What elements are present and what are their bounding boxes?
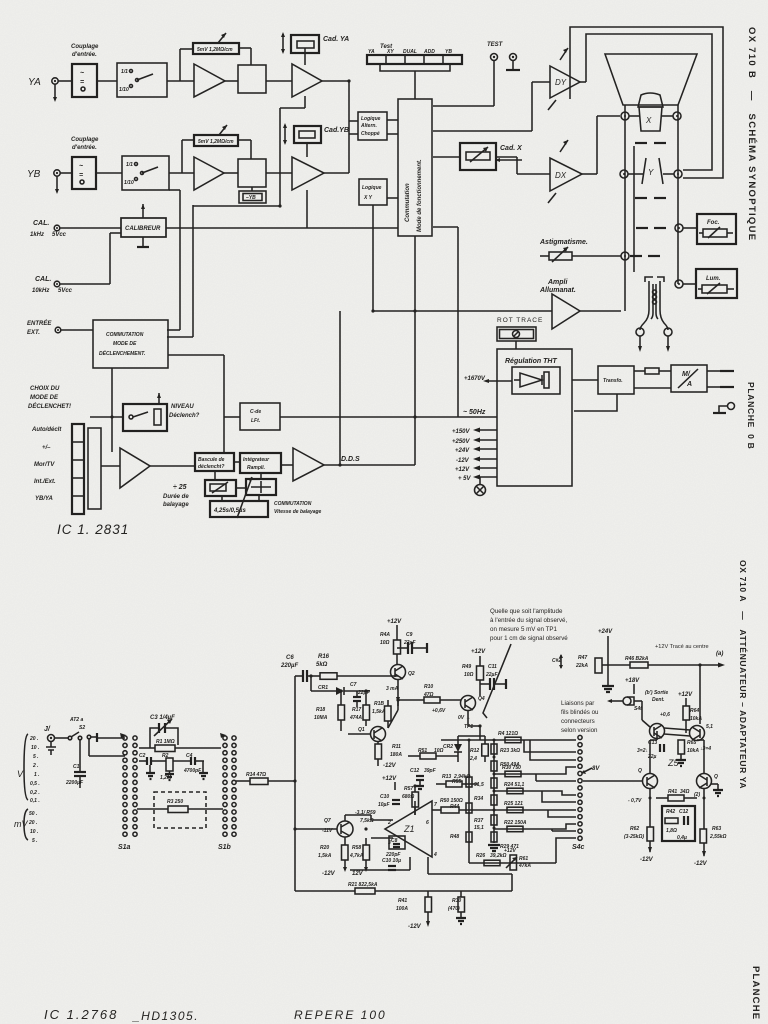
resistor R14: [236, 780, 250, 782]
svg-text:10µF: 10µF: [378, 802, 390, 808]
wire right trunk: [433, 226, 458, 228]
svg-text:ENTRÉE: ENTRÉE: [27, 319, 52, 327]
grid electrode dashes row1: [635, 142, 647, 144]
grid electrode dashes row2: [635, 197, 647, 199]
svg-text:+24V: +24V: [455, 448, 470, 454]
svg-text:Astigmatisme.: Astigmatisme.: [539, 239, 588, 246]
output amp YA: [292, 64, 322, 97]
svg-text:39pF: 39pF: [424, 768, 437, 774]
svg-text:Choppé: Choppé: [361, 131, 380, 137]
svg-text:R42: R42: [666, 809, 675, 815]
svg-text:2,4: 2,4: [469, 756, 477, 762]
svg-text:47kA: 47kA: [518, 863, 531, 869]
dashed compensation box: [154, 792, 206, 828]
svg-text:C10: C10: [380, 794, 389, 800]
svg-text:R20: R20: [320, 845, 329, 851]
svg-text:Intégrateur: Intégrateur: [243, 457, 270, 463]
wire DX output to X plates: [582, 173, 597, 175]
svg-text:474A: 474A: [349, 715, 362, 721]
box C-de LFt: [240, 403, 280, 430]
wire niveau line: [90, 416, 123, 418]
svg-text:=: =: [79, 172, 83, 179]
svg-text:100A: 100A: [396, 906, 408, 912]
X plate hat: [638, 93, 663, 107]
svg-text:YB: YB: [27, 169, 41, 180]
svg-text:R11: R11: [392, 744, 401, 750]
TEST terminal 2 with ground: [510, 54, 517, 61]
svg-text:déclencht?: déclencht?: [198, 464, 224, 470]
svg-text:+12V: +12V: [382, 776, 397, 782]
ground symbols: [146, 773, 155, 779]
svg-text:C2: C2: [139, 753, 146, 759]
svg-text:Cad. YA: Cad. YA: [323, 36, 349, 43]
svg-text:MODE DE: MODE DE: [30, 395, 59, 401]
svg-text:R4 121Ω: R4 121Ω: [498, 731, 518, 737]
op-amp Z1: [385, 801, 432, 857]
svg-text:10 .: 10 .: [30, 829, 38, 835]
svg-text:+1670V: +1670V: [464, 376, 486, 382]
svg-text:R25 121: R25 121: [504, 801, 523, 807]
ground chassis: [728, 403, 735, 410]
wire: [169, 172, 194, 174]
svg-text:2,55kΩ: 2,55kΩ: [709, 834, 727, 840]
svg-text:Cad. X: Cad. X: [500, 145, 523, 152]
svg-text:20 .: 20 .: [28, 820, 37, 826]
potentiometer R61: [510, 855, 517, 870]
trimmer Cad.X: [433, 156, 460, 158]
svg-text:3 mA: 3 mA: [386, 686, 399, 692]
svg-text:R23 3kΩ: R23 3kΩ: [500, 748, 520, 754]
bascule de declenchement box: [195, 453, 234, 471]
svg-text:on mesure 5 mV en TP1: on mesure 5 mV en TP1: [490, 626, 558, 633]
svg-text:(a): (a): [716, 651, 723, 657]
emitter ground Q6: [711, 783, 718, 785]
fuse: [634, 370, 645, 372]
svg-text:5Vcc: 5Vcc: [58, 288, 73, 294]
svg-text:22µF: 22µF: [485, 672, 498, 678]
svg-text:R57: R57: [404, 786, 413, 792]
box transfo: [598, 366, 634, 394]
svg-text:4: 4: [433, 852, 437, 858]
svg-text:OX 710 A — ATTÉNUATEUR – A: OX 710 A — ATTÉNUATEUR – ADAPTATEUR YA: [738, 560, 748, 789]
svg-text:(2): (2): [694, 792, 700, 798]
svg-text:Int./Ext.: Int./Ext.: [34, 479, 56, 485]
svg-text:0,2 .: 0,2 .: [30, 790, 40, 796]
svg-text:Ampli: Ampli: [547, 279, 569, 286]
svg-text:mV: mV: [14, 819, 28, 829]
box Foc.: [697, 214, 736, 244]
svg-text:R13: R13: [442, 774, 451, 780]
switch wafer S1b: [223, 736, 236, 836]
svg-text:+12V: +12V: [455, 467, 470, 473]
wire top tap row: [441, 739, 556, 741]
wire: [96, 172, 122, 174]
svg-text:5,1: 5,1: [706, 724, 713, 730]
callout line to TP1: [483, 644, 511, 718]
bottom row R26: [469, 862, 556, 864]
svg-text:20 .: 20 .: [29, 736, 38, 742]
wire S2 to S1a: [88, 739, 90, 756]
wire inner electrode column: [633, 146, 635, 272]
wire logic xy to ampli allumage: [373, 310, 552, 312]
CRT funnel: [605, 54, 697, 105]
svg-text:R10: R10: [424, 684, 433, 690]
svg-text:selon version: selon version: [561, 727, 598, 734]
svg-text:DUAL: DUAL: [403, 49, 417, 55]
gain block YA: [238, 65, 266, 93]
svg-text:(b') Sortie: (b') Sortie: [645, 690, 668, 696]
wire S4c to output pair: [583, 780, 643, 782]
svg-text:R21 822,5kA: R21 822,5kA: [348, 882, 378, 888]
svg-text:R55: R55: [452, 779, 461, 785]
svg-text:R22 150A: R22 150A: [504, 820, 527, 826]
svg-text:1/1: 1/1: [121, 69, 128, 75]
svg-text:connecteurs: connecteurs: [561, 718, 595, 725]
svg-text:CAL.: CAL.: [33, 220, 49, 227]
capacitor C1: [79, 740, 81, 771]
svg-text:+12V: +12V: [504, 848, 516, 854]
svg-text:R18: R18: [316, 707, 325, 713]
svg-text:91,5: 91,5: [474, 782, 484, 788]
svg-text:22kA: 22kA: [575, 663, 588, 669]
svg-text:C12: C12: [410, 768, 419, 774]
mains terminals: [707, 370, 720, 372]
svg-text:- 0,7V: - 0,7V: [628, 798, 642, 804]
svg-text:~: ~: [79, 163, 83, 170]
svg-text:YA: YA: [28, 77, 41, 88]
THT inner oscillator box: [512, 367, 560, 394]
feedback resistor 5mV YB: [181, 140, 183, 173]
svg-text:Q2: Q2: [408, 671, 415, 677]
svg-text:C10 10µ: C10 10µ: [382, 858, 401, 864]
svg-text:~ 50Hz: ~ 50Hz: [463, 409, 486, 416]
attenuator switch YA: [117, 63, 167, 97]
svg-text:Y: Y: [648, 168, 654, 177]
svg-text:+0,6: +0,6: [660, 712, 670, 718]
commutation mode box: [398, 99, 432, 236]
svg-text:R65: R65: [687, 740, 696, 746]
svg-text:10Ω: 10Ω: [464, 672, 474, 678]
resistor R2: [166, 758, 173, 771]
node focus: [675, 224, 683, 232]
tap row 4 output: [459, 809, 556, 811]
svg-text:Mor/TV: Mor/TV: [34, 462, 55, 468]
resistor R26: [484, 860, 500, 866]
svg-text:Foc.: Foc.: [707, 220, 720, 226]
svg-text:22pF: 22pF: [357, 690, 371, 696]
svg-text:2200µF: 2200µF: [65, 780, 84, 786]
coupling selector YB: [60, 172, 72, 174]
svg-text:=: =: [80, 79, 84, 86]
svg-text:34Ω: 34Ω: [680, 789, 690, 795]
svg-text:7: 7: [434, 802, 437, 808]
svg-text:5 .: 5 .: [32, 838, 38, 844]
svg-text:+12V Tracé au centre: +12V Tracé au centre: [655, 644, 709, 650]
svg-text:R37: R37: [474, 818, 483, 824]
svg-text:-12V: -12V: [456, 458, 470, 464]
speed selector box: [210, 501, 268, 517]
svg-text:X Y: X Y: [363, 195, 373, 201]
switch wafer S1a: [123, 736, 137, 836]
svg-text:1 .: 1 .: [34, 772, 40, 778]
svg-text:–YB: –YB: [246, 195, 256, 201]
grid electrode dashes row4: [630, 255, 642, 257]
svg-text:YB/YA: YB/YA: [35, 496, 53, 502]
svg-text:Mode de fonctionnement.: Mode de fonctionnement.: [417, 159, 423, 232]
svg-text:Cad.YB: Cad.YB: [324, 127, 349, 134]
cathode terminal right: [664, 328, 672, 336]
svg-text:50 .: 50 .: [29, 811, 37, 817]
svg-text:Allumanat.: Allumanat.: [539, 287, 576, 294]
ladder chain vertical: [493, 740, 495, 843]
svg-text:+0,6V: +0,6V: [432, 708, 446, 714]
svg-text:R16: R16: [318, 654, 330, 660]
svg-text:Transfo.: Transfo.: [603, 378, 623, 384]
svg-text:IC 1.2768: IC 1.2768: [44, 1007, 118, 1022]
commutation declenchement box: [93, 320, 168, 368]
preamp YB: [194, 157, 224, 190]
wire declench box down: [111, 368, 113, 417]
svg-text:ADD: ADD: [423, 49, 435, 55]
svg-text:10Ω: 10Ω: [380, 640, 390, 646]
svg-text:C1: C1: [73, 764, 80, 770]
grid electrode dashes row3: [636, 227, 648, 229]
wire selector to trigger amp: [101, 465, 120, 467]
svg-text:C6: C6: [286, 655, 294, 661]
svg-text:2 .: 2 .: [32, 763, 39, 769]
svg-text:10MA: 10MA: [314, 715, 328, 721]
svg-text:EXT.: EXT.: [27, 330, 40, 336]
svg-text:+250V: +250V: [452, 439, 471, 445]
wire TP1 column: [468, 740, 470, 863]
svg-text:d'entrée.: d'entrée.: [72, 145, 97, 151]
node lum: [675, 280, 683, 288]
tap row 2: [494, 773, 556, 775]
svg-text:÷ 25: ÷ 25: [173, 484, 187, 491]
logic block Altern/Choppe: [358, 112, 387, 140]
resistor R23: [491, 744, 497, 754]
wire: [224, 172, 238, 174]
transistor Q5: [643, 774, 658, 789]
svg-text:Dent.: Dent.: [652, 697, 665, 703]
svg-text:R1B: R1B: [374, 701, 384, 707]
svg-text:Lum.: Lum.: [706, 276, 721, 282]
svg-text:+12V: +12V: [471, 649, 486, 655]
svg-text:YB: YB: [445, 49, 452, 55]
wire ampli output to neck: [624, 310, 626, 312]
svg-text:+/–: +/–: [42, 445, 51, 451]
svg-text:↓3=4: ↓3=4: [700, 746, 711, 752]
svg-text:D.D.S: D.D.S: [341, 456, 360, 463]
op-amp DY: [550, 66, 580, 98]
svg-text:DY: DY: [555, 78, 567, 87]
wire Cad.X to DX: [496, 156, 517, 158]
node Y left: [620, 170, 628, 178]
svg-text:1kHz: 1kHz: [30, 232, 44, 238]
svg-text:C12: C12: [679, 809, 688, 815]
svg-text:A: A: [686, 381, 692, 388]
svg-text:1/1: 1/1: [126, 162, 133, 168]
svg-text:Altern.: Altern.: [360, 123, 377, 129]
coupling selector YA: [58, 80, 72, 82]
capacitor C4: [173, 760, 190, 762]
svg-text:C9: C9: [406, 632, 413, 638]
svg-text:C-de: C-de: [250, 409, 261, 415]
svg-text:Logique: Logique: [362, 185, 382, 191]
svg-text:Déclench?: Déclench?: [169, 413, 200, 419]
svg-text:Vitesse de balayage: Vitesse de balayage: [274, 509, 322, 515]
Y plates: [642, 158, 646, 184]
svg-text:MODE DE: MODE DE: [113, 341, 137, 347]
svg-text:CALIBREUR: CALIBREUR: [125, 226, 161, 232]
wire XY logic down: [372, 205, 374, 311]
op-amp DX: [550, 158, 582, 191]
svg-text:Couplage: Couplage: [71, 137, 99, 143]
svg-text:R34: R34: [474, 796, 483, 802]
svg-text:0,5 .: 0,5 .: [30, 781, 40, 787]
svg-text:5Vcc: 5Vcc: [52, 232, 67, 238]
transistor Q1: [371, 727, 386, 742]
svg-text:220µF: 220µF: [280, 663, 298, 669]
svg-text:Logique: Logique: [361, 116, 381, 122]
svg-text:(3-25kΩ): (3-25kΩ): [624, 834, 644, 840]
box M/A switch: [671, 365, 707, 392]
trigger amp: [120, 448, 150, 488]
transistor Z5 right: [690, 726, 705, 741]
svg-text:~: ~: [80, 70, 84, 77]
svg-text:Q4: Q4: [478, 696, 485, 702]
svg-text:R61: R61: [519, 856, 528, 862]
cross coupling wires: [664, 728, 690, 730]
svg-text:10 .: 10 .: [31, 745, 39, 751]
wire Z1 bottom rail: [345, 814, 371, 816]
svg-text:CHOIX DU: CHOIX DU: [30, 386, 60, 392]
svg-text:R47: R47: [578, 655, 587, 661]
svg-text:5mV 1,2MΩ/cm: 5mV 1,2MΩ/cm: [198, 139, 234, 145]
wire left rail: [294, 676, 296, 891]
transistor Z5 left: [650, 724, 665, 739]
svg-text:+24V: +24V: [598, 629, 613, 635]
svg-text:DX: DX: [555, 171, 567, 180]
wire to logic: [349, 120, 358, 122]
svg-text:pour 1 cm de signal observé: pour 1 cm de signal observé: [490, 635, 568, 642]
svg-text:-12V: -12V: [640, 857, 654, 863]
timing cap box: [246, 479, 276, 495]
bracket under buttons: [380, 64, 450, 71]
wire trunk from YB area down to trigger commutation: [169, 189, 180, 191]
svg-text:C7: C7: [350, 682, 357, 688]
svg-text:R30 750: R30 750: [502, 765, 521, 771]
wire THT to transfo: [572, 379, 598, 381]
svg-text:à l'entrée du signal observé,: à l'entrée du signal observé,: [490, 617, 567, 624]
inverter box -YB: [239, 191, 266, 203]
svg-text:1/10: 1/10: [124, 180, 134, 186]
svg-text:-12V: -12V: [322, 871, 336, 877]
svg-text:YA: YA: [368, 49, 375, 55]
svg-text:+ 5V: + 5V: [458, 476, 472, 482]
gain block YB: [238, 159, 266, 187]
tap row 3: [494, 790, 556, 792]
svg-text:R58: R58: [352, 845, 361, 851]
svg-text:R24 51,1: R24 51,1: [504, 782, 525, 788]
wire declench box to bascule trunk: [168, 354, 224, 356]
resistor R34: [491, 795, 497, 805]
svg-text:R48: R48: [450, 834, 459, 840]
svg-text:R14 47Ω: R14 47Ω: [246, 772, 266, 778]
resistor R28: [491, 832, 497, 842]
CRT heater assembly: [645, 277, 653, 282]
svg-text:0,4µ: 0,4µ: [677, 835, 687, 841]
CRT neck left: [624, 105, 626, 311]
svg-text:Durée de: Durée de: [163, 494, 189, 500]
junction dots: [309, 674, 312, 677]
logic block XY: [359, 179, 387, 205]
svg-text:1,8Ω: 1,8Ω: [666, 828, 677, 834]
svg-text:10kA: 10kA: [690, 716, 702, 722]
svg-text:Q: Q: [638, 768, 642, 774]
wire DY feedback inner loop: [586, 34, 712, 170]
feedback resistor 5mV YA: [179, 49, 181, 81]
node astigmatisme: [621, 252, 629, 260]
svg-text:TEST: TEST: [487, 42, 504, 48]
svg-text:S1a: S1a: [118, 844, 131, 851]
svg-text:Quelle que soit l'amplitude: Quelle que soit l'amplitude: [490, 608, 563, 615]
svg-text:X: X: [645, 116, 652, 125]
svg-text:S4c: S4c: [572, 844, 585, 851]
svg-text:LFt.: LFt.: [251, 418, 260, 424]
CRT neck right: [677, 105, 679, 284]
svg-text:AT2 a: AT2 a: [69, 717, 83, 723]
svg-text:DÉCLENCHET!: DÉCLENCHET!: [28, 402, 71, 410]
svg-text:5mV 1,2MΩ/cm: 5mV 1,2MΩ/cm: [197, 47, 233, 53]
wire: [225, 80, 238, 82]
resistor R37: [491, 815, 497, 825]
svg-text:Bascule de: Bascule de: [198, 457, 225, 463]
svg-text:-12V: -12V: [383, 763, 397, 769]
preamp YA: [194, 64, 225, 97]
trimmer Cad.YB: [294, 126, 321, 143]
svg-text:Q1: Q1: [358, 727, 365, 733]
svg-text:PLANCHE 0 B: PLANCHE 0 B: [746, 382, 756, 449]
svg-text:+12V: +12V: [387, 619, 402, 625]
svg-text:NIVEAU: NIVEAU: [171, 404, 194, 410]
svg-text:8V: 8V: [592, 766, 600, 772]
svg-text:C11: C11: [488, 664, 497, 670]
transistor Q6: [697, 774, 712, 789]
switch wafer S4c: [578, 735, 582, 840]
attenuator switch YB: [122, 156, 169, 190]
svg-text:+12V: +12V: [678, 692, 693, 698]
wire: [266, 80, 292, 82]
svg-text:22µF: 22µF: [403, 640, 416, 646]
transistor Q4: [461, 696, 476, 711]
X plates box: [639, 107, 662, 131]
svg-text:S2: S2: [79, 725, 85, 731]
svg-text:22µ: 22µ: [647, 754, 657, 760]
svg-text:Q7: Q7: [324, 818, 331, 824]
svg-text:+150V: +150V: [452, 429, 471, 435]
svg-text:R49: R49: [462, 664, 471, 670]
svg-text:R64: R64: [690, 708, 699, 714]
svg-text:S1b: S1b: [218, 844, 232, 851]
svg-text:C#2: C#2: [552, 658, 561, 664]
svg-text:10kHz: 10kHz: [32, 288, 49, 294]
resistor R1: [139, 747, 155, 749]
wire: [167, 80, 194, 82]
svg-text:-12V: -12V: [694, 861, 708, 867]
svg-text:R1 1MΩ: R1 1MΩ: [156, 739, 175, 745]
transistor Q2: [391, 665, 406, 680]
